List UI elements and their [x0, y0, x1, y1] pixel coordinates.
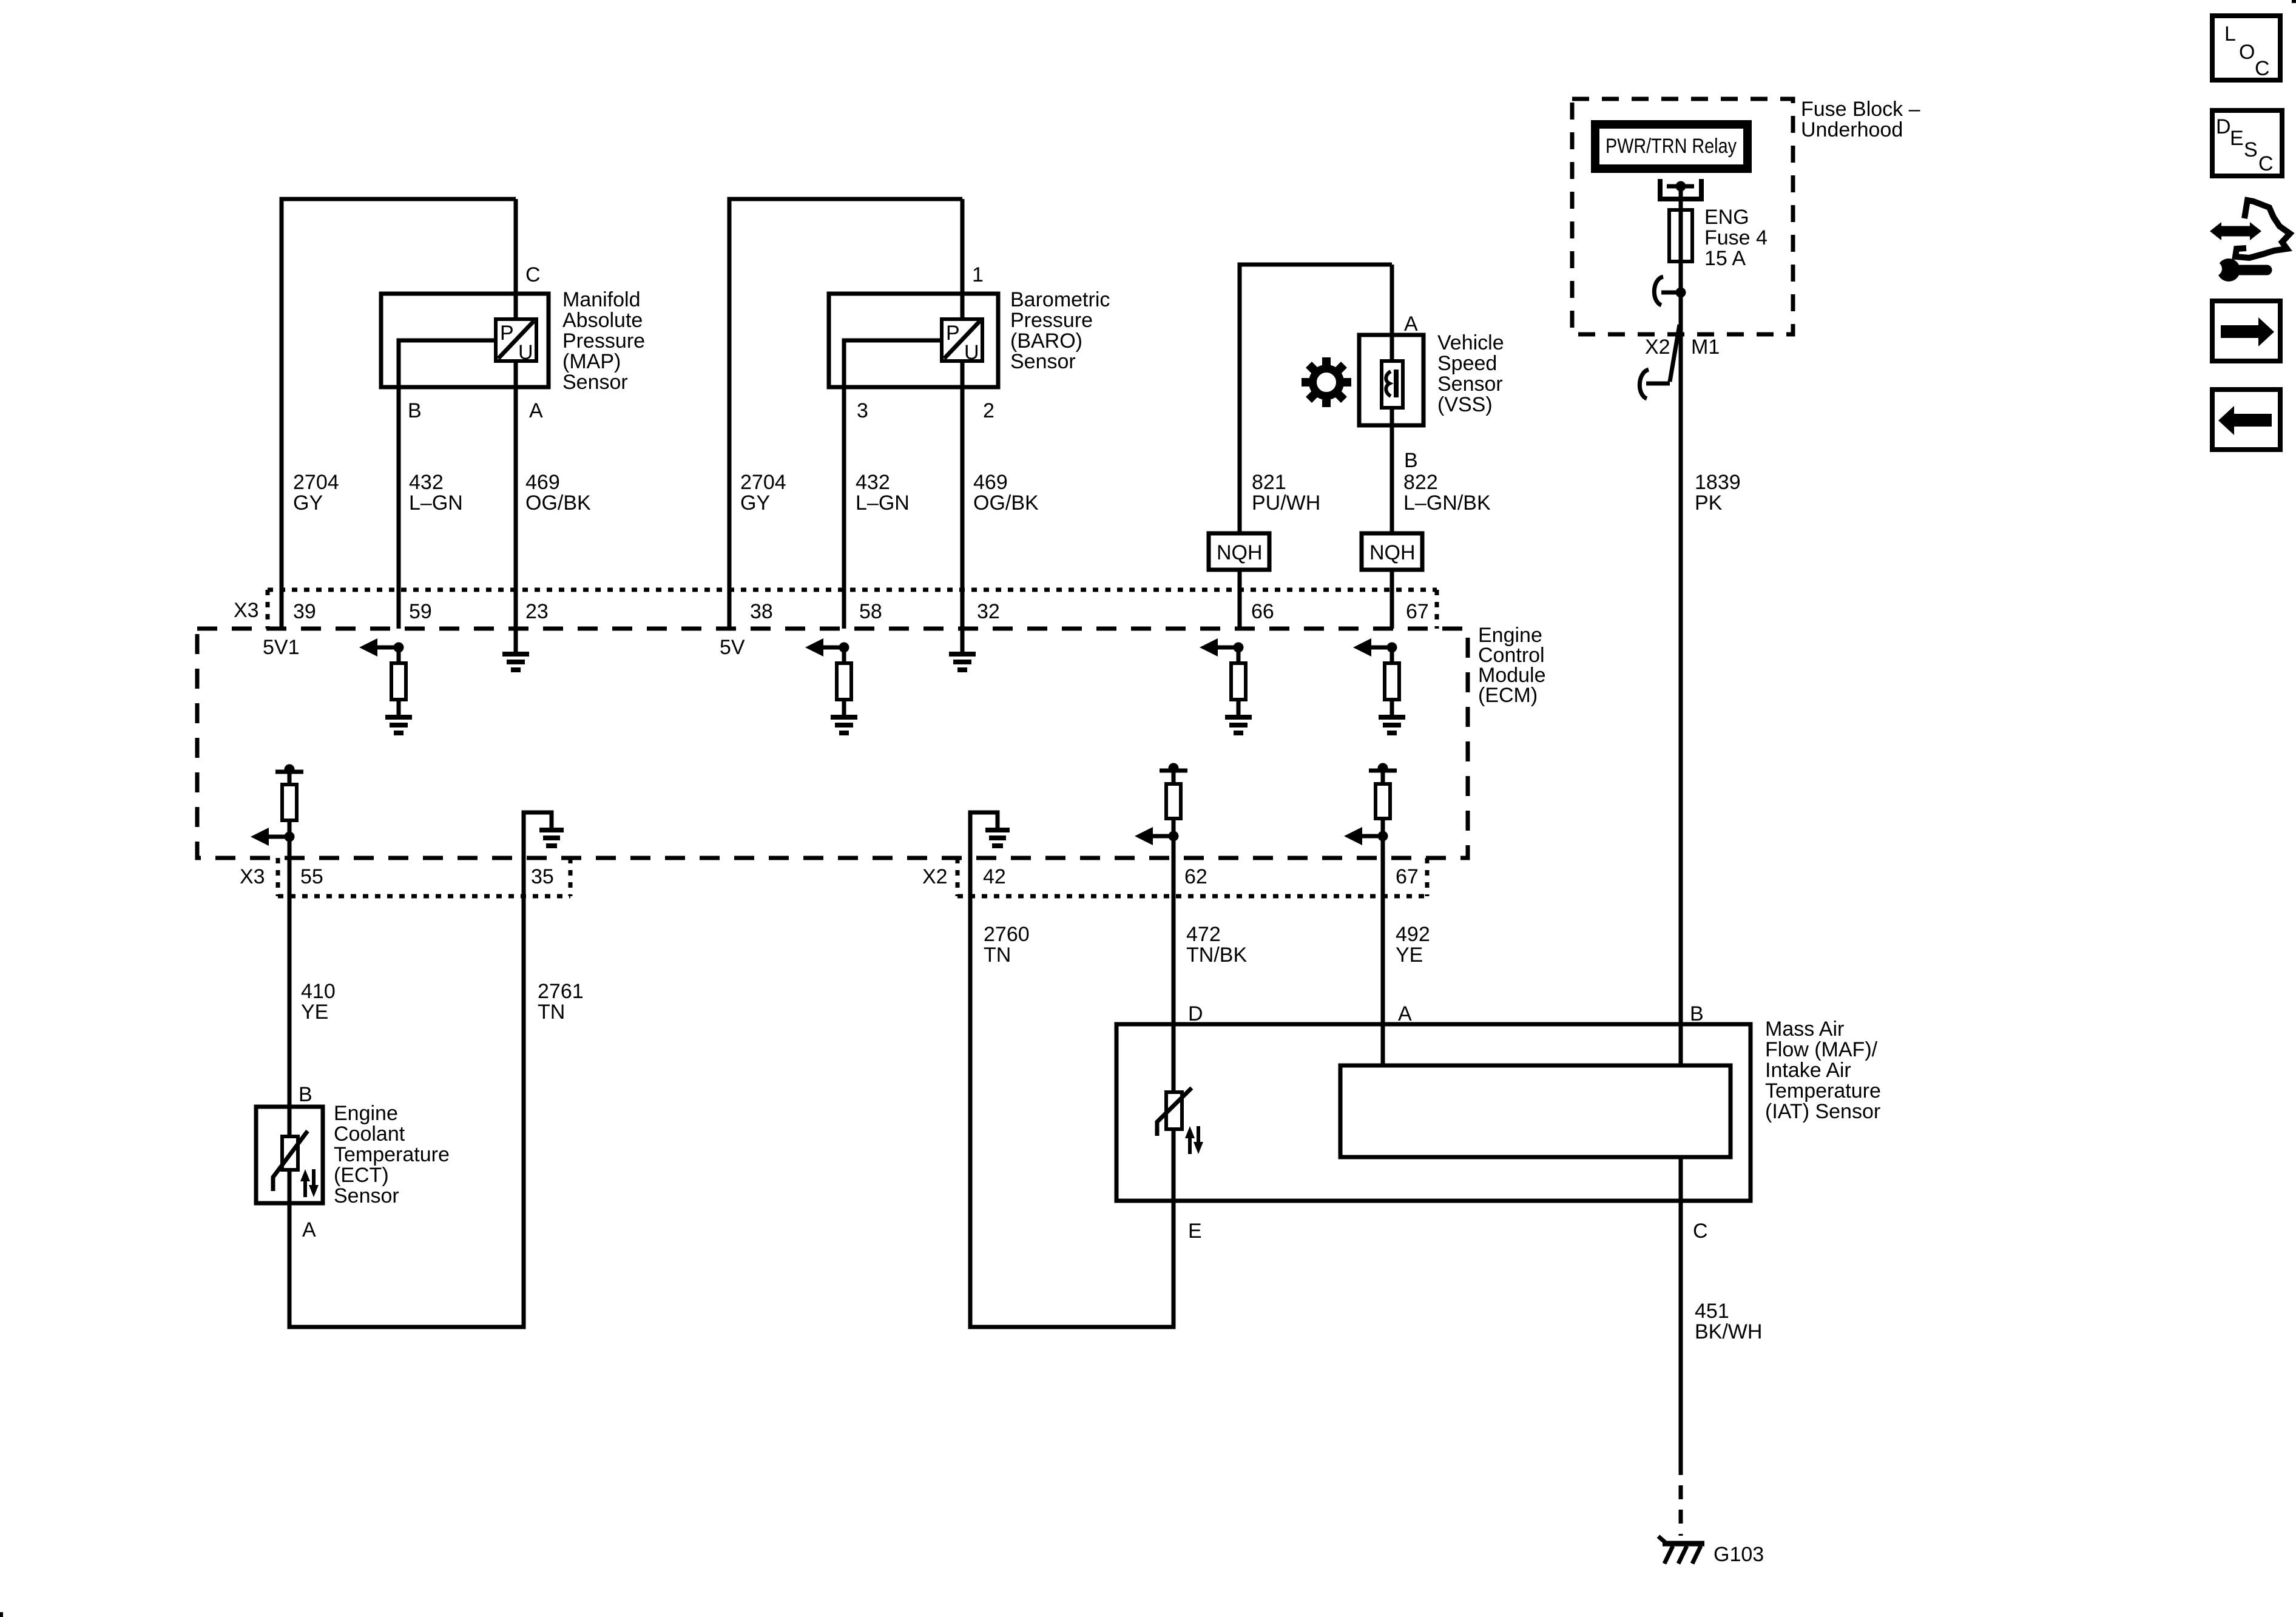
ECM internal resistor at pin 58	[837, 647, 851, 717]
svg-text:39: 39	[293, 600, 316, 623]
VSS sensor name label	[1437, 331, 1504, 416]
MAF/IAT sensor name label	[1765, 1018, 1881, 1123]
svg-text:2761: 2761	[538, 980, 584, 1003]
MAP sensor name label	[562, 288, 645, 394]
connector X2 M1 of fuse block	[1639, 325, 1680, 399]
svg-text:492: 492	[1396, 923, 1430, 946]
svg-text:(ECT): (ECT)	[334, 1164, 389, 1187]
ECM internal ground at pin 35	[539, 830, 564, 846]
svg-text:Temperature: Temperature	[1765, 1079, 1881, 1102]
svg-text:TN: TN	[538, 1001, 565, 1024]
svg-text:GY: GY	[740, 491, 770, 515]
ECM internal reference arrow at pin 58	[805, 638, 849, 657]
ECM internal ground at pin 32	[949, 629, 976, 670]
wire label 472 TN/BK	[1186, 923, 1247, 967]
svg-text:Fuse Block –: Fuse Block –	[1801, 98, 1920, 121]
page corner mark top right	[2292, 0, 2296, 3]
ECM internal ground at pin 59	[385, 717, 412, 733]
ECT thermistor symbol	[273, 1131, 319, 1197]
wire 469 OG/BK MAP signal pin C to pin A vertical	[514, 199, 518, 629]
svg-text:B: B	[408, 399, 422, 422]
connector X3 top pin row dotted strip	[268, 590, 1437, 629]
svg-text:PWR/TRN Relay: PWR/TRN Relay	[1606, 135, 1737, 158]
svg-text:E: E	[2230, 127, 2244, 150]
icon box LOC	[2212, 16, 2280, 80]
svg-text:BK/WH: BK/WH	[1695, 1320, 1762, 1343]
svg-text:PK: PK	[1695, 491, 1723, 515]
IAT thermistor symbol	[1157, 1088, 1203, 1154]
svg-text:B: B	[1690, 1002, 1704, 1025]
svg-text:2704: 2704	[740, 471, 786, 494]
svg-text:PU/WH: PU/WH	[1252, 491, 1320, 515]
svg-text:Sensor: Sensor	[1437, 373, 1503, 396]
page corner mark bottom left	[0, 1612, 3, 1617]
svg-text:Engine: Engine	[334, 1102, 398, 1125]
svg-text:X3: X3	[234, 599, 259, 622]
svg-text:C: C	[1693, 1220, 1708, 1243]
svg-text:YE: YE	[1396, 944, 1423, 967]
svg-text:C: C	[2258, 152, 2274, 175]
wire label 410 YE	[301, 980, 336, 1024]
svg-text:L–GN: L–GN	[856, 491, 910, 515]
wire label 469 OG/BK (BARO)	[973, 471, 1039, 515]
svg-text:X2: X2	[1645, 336, 1670, 359]
wire label 469 OG/BK (MAP)	[525, 471, 591, 515]
wire 410 YE pin 55 to ECT to 2761 TN loop	[289, 769, 552, 1327]
svg-text:OG/BK: OG/BK	[973, 491, 1039, 515]
svg-text:66: 66	[1251, 600, 1274, 623]
svg-text:G103: G103	[1714, 1543, 1764, 1566]
svg-text:32: 32	[977, 600, 1000, 623]
svg-text:NQH: NQH	[1369, 541, 1416, 564]
wire label 822 L-GN/BK	[1403, 471, 1491, 515]
icon box DESC	[2212, 110, 2282, 176]
wire 492 YE pin 67 to MAF pin A	[1381, 768, 1385, 1064]
splice NQH on wire 822	[1362, 533, 1422, 570]
svg-text:X2: X2	[922, 865, 948, 888]
wire label 821 PU/WH	[1252, 471, 1320, 515]
svg-text:2: 2	[983, 399, 994, 422]
connector junction inside fuse block	[1654, 277, 1686, 305]
relay output terminal bracket	[1658, 179, 1704, 199]
svg-text:67: 67	[1396, 865, 1419, 888]
ECM dashed box	[197, 629, 1468, 858]
wire 822 L-GN/BK VSS signal vertical	[1390, 265, 1394, 629]
svg-text:O: O	[2239, 41, 2255, 64]
wire 1839 PK from relay through fuse to MAF pin B	[1679, 186, 1683, 1064]
svg-text:YE: YE	[301, 1001, 328, 1024]
svg-text:55: 55	[300, 865, 323, 888]
svg-text:E: E	[1188, 1220, 1202, 1243]
ECM internal resistor at pin 66	[1231, 647, 1246, 717]
svg-text:GY: GY	[293, 491, 323, 515]
wire 2704 GY / 5V1 loop to MAP sensor	[282, 199, 516, 629]
MAF/IAT sensor outer box	[1116, 1024, 1751, 1201]
svg-text:(MAP): (MAP)	[562, 350, 621, 373]
wire label 451 BK/WH	[1695, 1300, 1762, 1343]
ECM internal 5V terminal at pin 55	[275, 765, 303, 775]
svg-text:821: 821	[1252, 471, 1286, 494]
ECM internal reference arrow at pin 67 lower	[1344, 827, 1388, 845]
ECM internal ground at pin 42	[985, 830, 1010, 846]
svg-text:67: 67	[1406, 600, 1429, 623]
svg-text:58: 58	[859, 600, 882, 623]
svg-text:ENG: ENG	[1704, 206, 1749, 229]
svg-text:1: 1	[972, 263, 984, 286]
wire 469 OG/BK BARO signal pin 1 to pin 2 vertical	[961, 199, 965, 629]
svg-text:Flow (MAF)/: Flow (MAF)/	[1765, 1038, 1878, 1061]
relay PWR/TRN Relay	[1591, 120, 1752, 173]
BARO sensor name label	[1010, 288, 1110, 373]
ECM internal resistor at pin 55	[282, 785, 297, 820]
svg-text:A: A	[1398, 1002, 1412, 1025]
VSS sensor box	[1359, 335, 1423, 425]
svg-text:D: D	[1188, 1002, 1203, 1025]
svg-text:L–GN/BK: L–GN/BK	[1403, 491, 1491, 515]
ECT sensor name label	[334, 1102, 450, 1207]
svg-text:42: 42	[983, 865, 1006, 888]
svg-text:1839: 1839	[1695, 471, 1741, 494]
svg-text:Temperature: Temperature	[334, 1143, 450, 1166]
svg-text:U: U	[964, 341, 979, 364]
MAF electronics inner box	[1340, 1065, 1730, 1157]
wire 451 BK/WH dashed continuation	[1679, 1461, 1683, 1536]
svg-text:Speed: Speed	[1437, 352, 1497, 375]
svg-text:(IAT) Sensor: (IAT) Sensor	[1765, 1100, 1880, 1123]
svg-text:23: 23	[525, 600, 549, 623]
svg-text:469: 469	[525, 471, 560, 494]
Fuse Block - Underhood label	[1801, 98, 1920, 141]
Fuse Block - Underhood dashed box	[1572, 99, 1793, 334]
svg-text:L: L	[2224, 22, 2236, 46]
ECM internal 5V terminal at pin 62	[1160, 763, 1187, 774]
svg-text:62: 62	[1184, 865, 1207, 888]
svg-text:Intake Air: Intake Air	[1765, 1059, 1851, 1082]
wire 451 BK/WH MAF pin C to G103	[1679, 1159, 1683, 1461]
ECM internal ground at pin 23	[502, 629, 529, 670]
fuse ENG Fuse 4 15 A	[1669, 208, 1692, 263]
svg-text:35: 35	[531, 865, 554, 888]
wire 2704 GY / 5V loop to BARO sensor	[729, 199, 962, 629]
ECM internal reference arrow at pin 59	[359, 638, 404, 657]
wire 432 L-GN MAP pin B ground	[399, 340, 494, 629]
svg-text:451: 451	[1695, 1300, 1729, 1323]
svg-text:A: A	[1404, 312, 1418, 336]
svg-text:Coolant: Coolant	[334, 1122, 405, 1146]
ECM internal 5V terminal at pin 67	[1369, 763, 1397, 774]
svg-text:410: 410	[301, 980, 336, 1003]
svg-text:(ECM): (ECM)	[1478, 684, 1538, 707]
wire label 432 L-GN (MAP)	[409, 471, 463, 515]
ECM name label	[1478, 624, 1546, 707]
svg-text:Sensor: Sensor	[334, 1184, 399, 1207]
MAP P/U pressure transducer symbol	[496, 319, 536, 364]
svg-text:Sensor: Sensor	[562, 371, 628, 394]
wire label 1839 PK	[1695, 471, 1741, 515]
splice NQH on wire 821	[1209, 533, 1269, 570]
VSS gear icon	[1302, 357, 1351, 407]
svg-text:OG/BK: OG/BK	[525, 491, 591, 515]
svg-text:P: P	[500, 322, 514, 345]
icon box arrow right	[2212, 301, 2280, 361]
svg-text:2704: 2704	[293, 471, 339, 494]
svg-text:L–GN: L–GN	[409, 491, 463, 515]
svg-text:TN: TN	[984, 944, 1011, 967]
svg-text:Mass Air: Mass Air	[1765, 1018, 1844, 1041]
connector X2 bottom pin row dotted strip	[957, 858, 1427, 896]
ECM internal reference arrow at pin 67	[1353, 638, 1397, 657]
svg-text:NQH: NQH	[1217, 541, 1263, 564]
MAP sensor box	[381, 294, 549, 387]
svg-text:S: S	[2244, 138, 2258, 161]
svg-text:Underhood: Underhood	[1801, 118, 1903, 141]
svg-text:822: 822	[1403, 471, 1438, 494]
ECM internal ground at pin 66	[1225, 717, 1252, 733]
fuse label ENG Fuse 4 15 A	[1704, 206, 1768, 270]
ground G103	[1658, 1536, 1704, 1564]
BARO sensor box	[829, 294, 998, 387]
wire label 2761 TN	[538, 980, 584, 1024]
ECM internal resistor at pin 67	[1385, 647, 1399, 717]
ECM internal ground at pin 67	[1379, 717, 1405, 733]
ECM internal resistor at pin 67 lower	[1376, 784, 1390, 819]
svg-text:Fuse 4: Fuse 4	[1704, 226, 1768, 249]
svg-text:Pressure: Pressure	[562, 329, 645, 353]
wire 472 TN/BK pin 62 to MAF pin D/E and 2760 TN loop	[970, 768, 1173, 1327]
ECM internal ground at pin 58	[831, 717, 857, 733]
svg-text:472: 472	[1186, 923, 1221, 946]
ECM internal resistor at pin 59	[391, 647, 406, 717]
ECM internal reference arrow at pin 62	[1135, 827, 1179, 845]
svg-text:2760: 2760	[984, 923, 1030, 946]
svg-text:D: D	[2216, 115, 2231, 138]
svg-text:C: C	[2255, 57, 2270, 80]
svg-text:A: A	[302, 1218, 316, 1241]
ECM internal reference arrow at pin 66	[1200, 638, 1244, 657]
svg-text:Pressure: Pressure	[1010, 309, 1093, 332]
svg-text:X3: X3	[240, 865, 265, 888]
connector X3 bottom pin row dotted strip	[278, 858, 570, 896]
wire 821 PU/WH VSS loop	[1240, 265, 1392, 629]
wire label 2704 GY (BARO)	[740, 471, 786, 515]
svg-text:5V: 5V	[720, 636, 745, 659]
ECM internal resistor at pin 62	[1166, 784, 1181, 819]
svg-text:B: B	[1404, 449, 1418, 472]
VSS pickup coil symbol	[1382, 361, 1403, 408]
icon box arrow left	[2212, 390, 2280, 450]
svg-text:U: U	[518, 341, 533, 364]
svg-text:Vehicle: Vehicle	[1437, 331, 1504, 354]
svg-text:TN/BK: TN/BK	[1186, 944, 1247, 967]
icon pointer with double arrow and wrench	[2206, 200, 2290, 282]
svg-text:15 A: 15 A	[1704, 247, 1746, 270]
ECM internal reference arrow at pin 55	[251, 828, 295, 846]
wire 432 L-GN BARO pin 3 ground	[844, 340, 940, 629]
wire label 2760 TN	[984, 923, 1030, 967]
svg-text:C: C	[525, 263, 541, 286]
svg-text:Absolute: Absolute	[562, 309, 643, 332]
wire label 2704 GY (MAP)	[293, 471, 339, 515]
ECT sensor box	[256, 1107, 323, 1203]
svg-text:Sensor: Sensor	[1010, 350, 1076, 373]
wire label 492 YE	[1396, 923, 1430, 967]
svg-text:A: A	[529, 399, 543, 422]
svg-text:59: 59	[409, 600, 432, 623]
svg-text:Manifold: Manifold	[562, 288, 641, 311]
wire label 432 L-GN (BARO)	[856, 471, 910, 515]
svg-text:(VSS): (VSS)	[1437, 393, 1493, 416]
BARO P/U pressure transducer symbol	[942, 319, 982, 364]
svg-text:B: B	[299, 1083, 312, 1106]
svg-text:432: 432	[409, 471, 444, 494]
svg-text:P: P	[946, 322, 960, 345]
svg-text:Barometric: Barometric	[1010, 288, 1110, 311]
svg-text:(BARO): (BARO)	[1010, 329, 1082, 353]
svg-text:38: 38	[750, 600, 773, 623]
svg-text:5V1: 5V1	[263, 636, 300, 659]
svg-text:M1: M1	[1691, 336, 1720, 359]
svg-text:469: 469	[973, 471, 1008, 494]
svg-text:3: 3	[857, 399, 868, 422]
svg-text:432: 432	[856, 471, 890, 494]
